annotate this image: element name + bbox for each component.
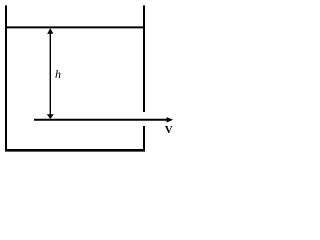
tank right wall lower segment [143,126,145,151]
tank right wall upper segment [143,5,145,112]
jet arrowhead [167,117,174,122]
dimension arrow h shaft [49,32,51,116]
svg-text:h: h [55,67,61,81]
svg-text:V: V [165,124,173,136]
dimension arrow h top head [47,28,53,33]
dimension arrow h bottom head [47,114,54,119]
jet streamline [34,119,168,121]
tank bottom [5,149,145,152]
water surface line [5,26,145,28]
tank left wall [5,5,7,151]
